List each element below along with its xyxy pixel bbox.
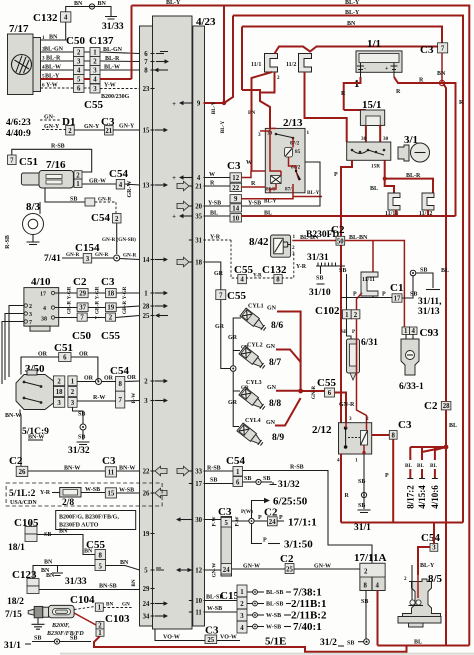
- wire SB 17/11A to ground node 31/2: [320, 591, 369, 649]
- svg-text:1: 1: [404, 328, 408, 335]
- svg-text:W-SB: W-SB: [85, 487, 100, 493]
- red wire BL-BN C2/50 to 11/11 and C93: [345, 241, 405, 328]
- connector C55 column bottom (8,5): [86, 539, 106, 571]
- svg-text:SB: SB: [316, 276, 323, 282]
- svg-text:2: 2: [57, 379, 61, 386]
- svg-text:11: 11: [195, 609, 202, 616]
- svg-text:BL-GN: BL-GN: [44, 47, 64, 53]
- ignition coil 7/16: [21, 159, 73, 188]
- svg-text:C55: C55: [227, 290, 246, 302]
- svg-text:BL-R: BL-R: [46, 56, 61, 62]
- svg-text:4/10: 4/10: [31, 276, 51, 288]
- diagnostic connector C154 bottom: [220, 585, 247, 633]
- junction node pin 9 BL-Y: [204, 6, 243, 134]
- connector C132 top: [33, 12, 71, 24]
- svg-text:GR-R: GR-R: [95, 301, 101, 315]
- svg-text:OR: OR: [127, 375, 137, 381]
- svg-text:2: 2: [93, 59, 97, 66]
- svg-text:4/40:9: 4/40:9: [6, 129, 31, 139]
- svg-text:24: 24: [143, 601, 150, 608]
- svg-text:3: 3: [71, 400, 75, 407]
- svg-text:BL-SB: BL-SB: [266, 590, 283, 596]
- svg-text:31/1: 31/1: [4, 641, 21, 651]
- svg-text:BL-SB: BL-SB: [266, 602, 283, 608]
- svg-text:CYL3: CYL3: [246, 380, 262, 386]
- svg-text:2: 2: [109, 315, 113, 322]
- svg-text:4/15:4: 4/15:4: [417, 485, 427, 509]
- ground rail 31/31: [307, 253, 345, 284]
- svg-text:BL: BL: [414, 640, 422, 646]
- svg-text:R: R: [341, 91, 346, 97]
- svg-text:R-W: R-W: [131, 392, 137, 403]
- svg-text:6: 6: [144, 51, 148, 58]
- svg-text:8/3: 8/3: [26, 201, 41, 213]
- svg-text:85: 85: [295, 149, 301, 155]
- svg-text:C132: C132: [33, 12, 58, 24]
- svg-text:4/10:6: 4/10:6: [430, 485, 440, 509]
- connector C54 pin 4: [109, 168, 128, 189]
- svg-text:7: 7: [80, 315, 84, 322]
- wire BN-SB C123 to strip pin 29: [39, 589, 140, 590]
- svg-text:31/11,: 31/11,: [418, 297, 442, 307]
- svg-text:9: 9: [234, 196, 238, 203]
- svg-text:W-SB: W-SB: [266, 613, 281, 619]
- svg-text:CYL1: CYL1: [248, 304, 264, 310]
- strip direction arrows: [154, 52, 193, 619]
- svg-text:BN-W: BN-W: [28, 435, 44, 441]
- svg-text:Y-GR: Y-GR: [95, 286, 101, 299]
- connector C93: [402, 327, 439, 339]
- svg-text:BL-R: BL-R: [105, 56, 120, 62]
- injector CYL4 8/9: [237, 423, 265, 448]
- svg-text:5/1L:2: 5/1L:2: [9, 489, 36, 499]
- svg-text:1: 1: [236, 469, 240, 476]
- svg-text:C54: C54: [91, 212, 110, 224]
- svg-text:18/1: 18/1: [8, 543, 25, 553]
- distributor 8/3: [23, 201, 44, 242]
- svg-text:7: 7: [29, 320, 32, 326]
- svg-text:35: 35: [195, 213, 202, 220]
- svg-text:GN-W: GN-W: [243, 564, 260, 570]
- svg-text:GN-R: GN-R: [123, 253, 137, 259]
- svg-text:2/12: 2/12: [312, 424, 332, 436]
- red wires fuse to ignition switch 3/1: [366, 125, 380, 142]
- svg-text:SB: SB: [210, 478, 217, 484]
- svg-text:SB: SB: [70, 197, 77, 203]
- wire BN-W to strip pin 22: [117, 470, 140, 472]
- wires C2 to C3 column: [87, 293, 105, 318]
- dashed wire Y-R strip pin31 to C132/8: [204, 235, 307, 279]
- wire R strip pin21 to C3/22 into 2/13: [204, 181, 266, 188]
- svg-text:P: P: [263, 538, 267, 544]
- svg-text:8: 8: [364, 583, 368, 590]
- red rail A BN/BL from node down through C2/28 to bottom: [443, 83, 446, 646]
- svg-text:BL-Y: BL-Y: [307, 190, 320, 196]
- svg-text:SB: SB: [34, 636, 41, 642]
- svg-text:GR-W: GR-W: [89, 179, 106, 185]
- svg-text:18: 18: [107, 291, 114, 298]
- svg-text:GN-R: GN-R: [339, 402, 355, 408]
- connector C3 column right (12,22,9,14,10): [227, 160, 242, 222]
- svg-text:SB: SB: [339, 268, 346, 274]
- svg-text:29: 29: [143, 586, 150, 593]
- red wire P from C3/8 down to cross rail: [392, 439, 394, 522]
- connector C3 pin 15: [105, 488, 116, 498]
- svg-text:P: P: [382, 292, 386, 298]
- red wire BL-Y C3/9 to 2/13 pin 87/1: [242, 193, 323, 199]
- svg-text:3: 3: [144, 398, 148, 405]
- svg-text:31/13: 31/13: [418, 307, 440, 317]
- svg-text:P-W: P-W: [212, 516, 218, 527]
- svg-text:4: 4: [197, 175, 201, 182]
- svg-text:CYL2: CYL2: [247, 343, 263, 349]
- svg-text:BL: BL: [449, 423, 457, 429]
- svg-text:6/25:50: 6/25:50: [273, 496, 308, 508]
- svg-text:C2: C2: [9, 455, 23, 467]
- svg-text:3: 3: [29, 312, 32, 318]
- connector 11/2: [286, 54, 312, 73]
- svg-text:BL: BL: [417, 463, 424, 469]
- svg-text:2/13: 2/13: [283, 117, 303, 129]
- svg-text:21: 21: [105, 128, 112, 135]
- svg-text:BL: BL: [430, 463, 437, 469]
- svg-text:17: 17: [394, 295, 401, 302]
- svg-text:BL-Y: BL-Y: [45, 74, 60, 80]
- svg-text:GR-R: GR-R: [67, 301, 73, 315]
- svg-text:BN: BN: [49, 35, 58, 41]
- red rail BL-Y top line 1: [132, 6, 470, 646]
- svg-text:7/38:1: 7/38:1: [293, 587, 322, 599]
- wire GR strip pin18 to C55/7: [204, 262, 221, 290]
- red wire relay to C3/8: [372, 434, 390, 436]
- svg-text:19: 19: [143, 531, 150, 538]
- svg-text:28: 28: [143, 303, 150, 310]
- svg-text:8: 8: [98, 553, 102, 560]
- svg-text:5/1E: 5/1E: [265, 636, 286, 648]
- svg-text:Y-R: Y-R: [296, 264, 307, 270]
- svg-text:BN-W: BN-W: [119, 466, 135, 472]
- svg-text:1: 1: [355, 458, 358, 464]
- svg-text:2: 2: [76, 172, 80, 179]
- svg-text:29: 29: [79, 291, 86, 298]
- red wire GN bus from injectors to node: [275, 312, 325, 426]
- svg-text:31/33: 31/33: [102, 22, 124, 32]
- svg-text:SB: SB: [78, 435, 85, 441]
- wire GN-W strip pin12 to C2/25 to 17/11A: [204, 564, 286, 571]
- ignition switch unit 2/13: [258, 117, 310, 193]
- svg-text:1: 1: [98, 605, 102, 612]
- svg-text:C102: C102: [315, 305, 340, 317]
- svg-text:C2: C2: [331, 224, 345, 236]
- svg-text:6/33-1: 6/33-1: [399, 382, 424, 392]
- svg-text:1: 1: [240, 589, 244, 596]
- connector C132 pin 8: [262, 264, 287, 284]
- svg-text:BL: BL: [370, 186, 378, 192]
- connector 11/11: [361, 272, 378, 296]
- svg-text:7/17: 7/17: [9, 23, 29, 35]
- svg-text:31/10: 31/10: [309, 288, 331, 298]
- svg-text:7/16: 7/16: [46, 159, 66, 171]
- svg-text:C2: C2: [73, 276, 87, 288]
- svg-text:GN: GN: [266, 344, 276, 350]
- connector C55 pin 4: [234, 264, 253, 284]
- svg-text:10: 10: [195, 598, 202, 605]
- connector C2 column (29,37,7): [72, 276, 91, 342]
- svg-text:P: P: [279, 515, 283, 521]
- svg-text:4: 4: [77, 68, 81, 75]
- svg-text:12: 12: [232, 175, 239, 182]
- svg-text:2: 2: [71, 389, 75, 396]
- svg-text:R: R: [396, 89, 401, 95]
- svg-text:26: 26: [19, 469, 26, 476]
- svg-text:8: 8: [118, 381, 122, 388]
- svg-text:7: 7: [219, 292, 223, 299]
- svg-text:1: 1: [76, 181, 80, 188]
- red wire BL row strip pin35 C3/10 to right rail: [204, 211, 456, 217]
- svg-text:BL-SB: BL-SB: [206, 595, 223, 601]
- svg-text:12: 12: [195, 567, 202, 574]
- svg-text:R-SB: R-SB: [290, 465, 304, 471]
- svg-text:P: P: [334, 172, 338, 178]
- wire BN C105 to C55/8: [37, 535, 95, 555]
- wires 4/10 left pins to far left going down: [2, 306, 24, 385]
- svg-text:37: 37: [79, 305, 86, 312]
- svg-text:6: 6: [236, 480, 240, 487]
- wire W strip pin4 to C3/12: [204, 177, 231, 179]
- svg-text:11/11: 11/11: [362, 277, 375, 283]
- svg-text:31/31: 31/31: [307, 253, 329, 263]
- wire SB ground row 31/1 bottom left: [4, 636, 91, 652]
- svg-text:3: 3: [93, 68, 97, 75]
- red wire spark plug to C103/2: [74, 613, 96, 625]
- svg-text:GN: GN: [267, 306, 277, 312]
- wire 7/17 pin1 BN to C132: [41, 22, 66, 40]
- svg-text:34: 34: [143, 613, 150, 620]
- svg-text:8: 8: [144, 67, 148, 74]
- svg-text:24: 24: [223, 567, 230, 574]
- wire BN-W from 3/50 down to C2/26 with 5/1C:9 tap: [5, 410, 49, 467]
- wire OR to strip pin 2: [125, 380, 140, 383]
- svg-text:GN: GN: [267, 385, 277, 391]
- wire SB C1 to node and ground 31/11 31/13: [402, 268, 440, 299]
- ECU strip right pin numbers: [195, 100, 202, 616]
- svg-text:22: 22: [143, 468, 150, 475]
- C50 pin boxes 2,3,4,5,6: [74, 48, 85, 93]
- connector 11/13: [385, 193, 400, 217]
- svg-text:2: 2: [404, 576, 407, 582]
- svg-text:3/1:50: 3/1:50: [284, 539, 313, 551]
- wire BN-W C2/26 to C3/11: [28, 470, 106, 472]
- svg-text:Y: Y: [95, 315, 101, 319]
- svg-text:BL: BL: [210, 211, 218, 217]
- svg-text:GR-R: GR-R: [122, 301, 128, 315]
- connector 11/12: [419, 193, 434, 217]
- svg-text:Y-R: Y-R: [253, 273, 262, 279]
- svg-text:4: 4: [411, 328, 415, 335]
- wires 4/10 right pins to C2 column: [55, 293, 77, 318]
- svg-text:R: R: [251, 181, 256, 187]
- connector C2 pin 24: [264, 507, 317, 529]
- connector 11/1: [251, 54, 278, 73]
- svg-text:GR: GR: [228, 335, 238, 341]
- svg-text:8/6: 8/6: [271, 321, 283, 331]
- svg-text:C3: C3: [398, 419, 412, 431]
- svg-text:BL-Y: BL-Y: [211, 102, 217, 115]
- wires BL-SB W-SB from strip pins 10 11 to C154: [204, 595, 238, 613]
- red wire 11/2 bottom down to ignition feed: [305, 72, 347, 142]
- svg-text:5: 5: [77, 77, 81, 84]
- svg-text:30: 30: [383, 136, 389, 142]
- svg-text:23: 23: [143, 86, 150, 93]
- svg-text:C3: C3: [102, 455, 116, 467]
- wire SB pin17 to C54/6 to ground 31/32: [204, 476, 300, 490]
- svg-text:GR: GR: [215, 324, 225, 330]
- svg-text:R: R: [459, 100, 464, 106]
- svg-text:BN: BN: [106, 602, 113, 608]
- svg-text:BL: BL: [264, 211, 272, 217]
- svg-text:GN-Y: GN-Y: [119, 124, 135, 130]
- svg-text:P: P: [385, 473, 389, 479]
- power stage 8/42: [249, 234, 296, 257]
- svg-text:4: 4: [64, 15, 68, 22]
- svg-text:C137: C137: [89, 35, 114, 47]
- svg-text:2: 2: [354, 312, 358, 319]
- svg-text:C2: C2: [424, 400, 438, 412]
- svg-text:8/17:2: 8/17:2: [405, 485, 415, 509]
- svg-text:VO-W: VO-W: [220, 635, 237, 641]
- svg-text:6: 6: [328, 390, 332, 397]
- svg-text:3: 3: [93, 86, 97, 93]
- injector CYL3 8/8: [239, 387, 267, 412]
- svg-text:SB: SB: [358, 503, 365, 509]
- svg-text:SB: SB: [263, 476, 270, 482]
- wires C3 to strip pins 1,28,25: [116, 293, 140, 318]
- CO sensor 6/31: [347, 338, 379, 380]
- ground 31/1 center: [354, 510, 371, 533]
- connector C54 pin 3: [421, 523, 440, 552]
- annotation box B200F/G B230F/FB/G B230FD AUTO: [56, 511, 136, 530]
- svg-text:BN-W: BN-W: [64, 466, 80, 472]
- svg-text:B200F/G, B230F/FB/G,: B200F/G, B230F/FB/G,: [59, 515, 119, 521]
- svg-text:18: 18: [195, 259, 202, 266]
- svg-text:BN: BN: [98, 1, 107, 7]
- svg-text:2: 2: [364, 569, 368, 576]
- svg-text:15: 15: [143, 127, 150, 134]
- svg-text:C54: C54: [421, 532, 440, 544]
- svg-text:B200/230G: B200/230G: [101, 94, 130, 100]
- svg-text:6/31: 6/31: [361, 338, 378, 348]
- wire SB from 3/50 col B pin3 down to ground 31/32: [73, 407, 87, 440]
- connector C2 pin 26: [9, 455, 28, 477]
- svg-text:1: 1: [345, 312, 349, 319]
- svg-text:5: 5: [144, 567, 148, 574]
- red bottom rail B from C103: [94, 636, 407, 652]
- svg-text:C3: C3: [227, 160, 241, 172]
- svg-text:6: 6: [77, 86, 81, 93]
- svg-text:17/1:1: 17/1:1: [288, 517, 317, 529]
- svg-text:SB: SB: [358, 479, 365, 485]
- svg-text:W-SB: W-SB: [207, 606, 222, 612]
- red wire R battery plus to right rail: [394, 77, 456, 216]
- svg-text:22: 22: [232, 185, 239, 192]
- svg-text:31/2: 31/2: [320, 638, 337, 648]
- wires C102 down to sensor 6/31: [347, 319, 352, 339]
- svg-text:1: 1: [307, 130, 310, 136]
- svg-text:SB: SB: [341, 329, 348, 335]
- wire BN C55/5 to strip pin 5: [106, 566, 140, 571]
- svg-text:B200F,: B200F,: [51, 623, 70, 629]
- connector C3 pin 8: [389, 419, 412, 439]
- svg-text:1: 1: [144, 290, 148, 297]
- svg-text:BL-W: BL-W: [45, 65, 61, 71]
- svg-text:2: 2: [77, 50, 81, 57]
- svg-text:20: 20: [195, 203, 202, 210]
- svg-text:30: 30: [195, 517, 202, 524]
- ECU strip left pin column: [140, 26, 153, 626]
- wire P rail to C1/17 via 11/11: [341, 292, 392, 298]
- connector C3 column bottom (5,24): [212, 506, 241, 577]
- svg-text:Y-W: Y-W: [46, 83, 58, 89]
- red wire BL-Y C54/3 to valve 8/5: [418, 547, 430, 575]
- svg-text:26: 26: [143, 490, 150, 497]
- svg-text:Y-W: Y-W: [104, 83, 116, 89]
- svg-text:6: 6: [63, 355, 67, 362]
- svg-text:2: 2: [277, 75, 280, 81]
- spark plug 7/15: [5, 605, 74, 620]
- red wire BL-R to 11/12: [383, 173, 433, 193]
- svg-text:4: 4: [93, 77, 97, 84]
- svg-text:4/23: 4/23: [196, 16, 216, 28]
- throttle switch 3/50: [16, 363, 54, 410]
- svg-text:R: R: [345, 493, 350, 499]
- svg-text:VO-W: VO-W: [163, 635, 180, 641]
- svg-text:8/8: 8/8: [269, 399, 281, 409]
- svg-text:BL-Y: BL-Y: [345, 0, 360, 6]
- svg-text:11/1: 11/1: [251, 62, 261, 68]
- svg-text:GN-R: GN-R: [311, 386, 317, 400]
- svg-text:18: 18: [56, 389, 63, 396]
- svg-text:1/1: 1/1: [367, 38, 381, 50]
- ground 31/33 top: [102, 17, 124, 33]
- connector C2 pin 50: [331, 224, 345, 245]
- connector C51 pin 7: [8, 155, 38, 168]
- connector C3 column (18,19,2): [101, 276, 120, 342]
- wire P-W strip pin30 to C3/5: [204, 519, 222, 521]
- svg-text:OR: OR: [84, 376, 94, 382]
- svg-text:Y-SB: Y-SB: [208, 201, 221, 207]
- svg-text:R-SB: R-SB: [5, 235, 11, 249]
- svg-text:3: 3: [240, 613, 244, 620]
- connector C123: [7, 568, 50, 607]
- svg-text:USA/CDN: USA/CDN: [10, 500, 37, 506]
- svg-text:2/8: 2/8: [62, 498, 74, 508]
- svg-text:C104: C104: [70, 594, 95, 606]
- svg-text:3: 3: [86, 256, 90, 263]
- svg-text:19: 19: [107, 305, 114, 312]
- connector C54 column (8,7): [110, 365, 129, 408]
- svg-text:50: 50: [337, 238, 344, 245]
- svg-text:C93: C93: [420, 327, 439, 339]
- svg-text:2: 2: [98, 622, 102, 629]
- svg-text:BL-W: BL-W: [104, 65, 120, 71]
- svg-text:GN-W: GN-W: [314, 564, 331, 570]
- svg-text:7/41: 7/41: [44, 254, 61, 264]
- wire BN C123 up to C55/5 with ground 31/33: [33, 560, 95, 588]
- coil 7/16 pin boxes 2,1: [74, 171, 82, 188]
- svg-text:C55: C55: [84, 99, 103, 111]
- svg-text:9: 9: [197, 100, 201, 107]
- connector C105: [8, 517, 51, 553]
